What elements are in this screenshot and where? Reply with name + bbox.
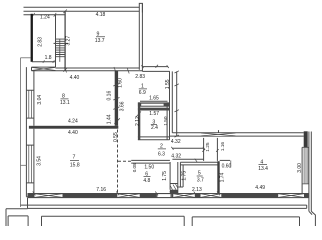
svg-text:1.44: 1.44: [107, 114, 113, 124]
svg-text:0.60: 0.60: [222, 163, 232, 169]
svg-text:4.32: 4.32: [171, 153, 181, 159]
svg-text:4.32: 4.32: [171, 139, 181, 145]
svg-text:3.04: 3.04: [37, 95, 43, 105]
svg-text:2.12: 2.12: [135, 116, 141, 126]
svg-text:13.4: 13.4: [258, 166, 268, 172]
svg-text:1.74: 1.74: [219, 172, 225, 182]
svg-text:0.08: 0.08: [132, 163, 137, 172]
svg-text:3.66: 3.66: [120, 101, 126, 111]
svg-text:1.55: 1.55: [165, 79, 171, 89]
svg-text:4.49: 4.49: [255, 185, 265, 191]
svg-text:4.40: 4.40: [68, 130, 78, 136]
svg-text:4.40: 4.40: [70, 75, 80, 81]
svg-text:1.65: 1.65: [149, 96, 159, 102]
svg-text:2.83: 2.83: [135, 74, 145, 80]
svg-text:1.24: 1.24: [40, 15, 50, 21]
svg-text:3.7: 3.7: [197, 177, 204, 183]
svg-text:1.57: 1.57: [149, 111, 159, 117]
svg-text:13.7: 13.7: [95, 38, 105, 44]
svg-text:2.4: 2.4: [151, 125, 158, 131]
svg-text:4.8: 4.8: [143, 178, 150, 184]
svg-text:0.55: 0.55: [113, 132, 119, 142]
svg-text:1.60: 1.60: [117, 78, 123, 88]
svg-text:2.83: 2.83: [37, 37, 43, 47]
svg-text:3.00: 3.00: [297, 163, 303, 173]
svg-text:15.8: 15.8: [70, 162, 80, 168]
svg-text:1.25: 1.25: [205, 142, 211, 152]
svg-text:4.18: 4.18: [96, 12, 106, 18]
svg-text:3.27: 3.27: [65, 36, 71, 46]
svg-text:1.75: 1.75: [182, 171, 188, 181]
svg-text:6.9: 6.9: [139, 90, 146, 96]
svg-text:1.75: 1.75: [162, 171, 168, 181]
svg-text:5: 5: [198, 170, 201, 176]
svg-text:0.16: 0.16: [106, 91, 112, 101]
svg-text:1.16: 1.16: [220, 142, 226, 152]
svg-text:1.50: 1.50: [163, 116, 169, 126]
svg-text:2.13: 2.13: [192, 187, 202, 193]
svg-text:13.1: 13.1: [60, 100, 70, 106]
svg-text:1.8: 1.8: [45, 55, 52, 61]
svg-text:7.16: 7.16: [96, 187, 106, 193]
svg-text:6.3: 6.3: [158, 151, 165, 157]
svg-text:7: 7: [73, 155, 76, 161]
svg-text:4.24: 4.24: [68, 119, 78, 125]
svg-text:1.50: 1.50: [144, 164, 154, 170]
svg-text:3.54: 3.54: [37, 156, 43, 166]
